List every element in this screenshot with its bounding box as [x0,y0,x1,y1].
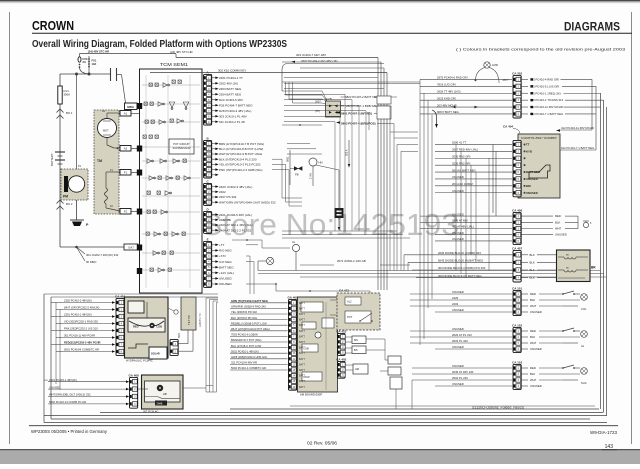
svg-text:UNUSED: UNUSED [219,282,233,286]
svg-text:CA 404: CA 404 [503,125,513,129]
svg-text:Overall Wiring Diagram, Folded: Overall Wiring Diagram, Folded Platform … [32,39,287,50]
svg-text:UNUSED: UNUSED [452,327,464,331]
svg-text:WP2300S 05/2005 • Printed in G: WP2300S 05/2005 • Printed in Germany [31,429,108,434]
svg-text:2426: 2426 [452,296,459,300]
svg-text:BATTERY: BATTERY [50,153,54,166]
svg-text:UNUSED: UNUSED [452,189,464,193]
svg-text:UNUSED: UNUSED [526,177,538,181]
svg-text:BLK (INT)PC410-4 PLS 200: BLK (INT)PC410-4 PLS 200 [219,157,257,161]
svg-text:GR/8 (306)PC202-6 HNS GIG: GR/8 (306)PC202-6 HNS GIG [231,355,267,359]
svg-text:BRN: BRN [178,333,181,338]
svg-text:BATT: BATT [299,347,305,350]
svg-text:BLK: BLK [530,298,535,302]
svg-text:UNUSED: UNUSED [526,191,538,195]
svg-text:2404 AT 302-2 2 PL 332: 2404 AT 302-2 2 PL 332 [219,228,251,232]
svg-text:908 P BATT NEG: 908 P BATT NEG [437,110,459,114]
svg-text:309 DIODE BLOCK (C) BATT NEG: 309 DIODE BLOCK (C) BATT NEG [438,274,482,278]
svg-text:TM: TM [97,159,102,163]
svg-text:BATT: BATT [299,330,305,333]
svg-text:BLK: BLK [555,220,560,224]
svg-text:912 PC410-7 1 BATT NEG: 912 PC410-7 1 BATT NEG [561,146,594,150]
svg-text:RED: RED [555,214,561,218]
svg-text:VIO (302)PC202-1 RAD 292: VIO (302)PC202-1 RAD 292 [64,320,98,324]
svg-text:UNUSED: UNUSED [452,175,464,179]
svg-text:A1: A1 [124,112,128,116]
svg-text:LMR: LMR [492,63,498,67]
svg-text:2623 KHD GRI: 2623 KHD GRI [437,96,456,100]
svg-text:2304 BATT NEG: 2304 BATT NEG [219,92,242,96]
svg-text:UNUSED: UNUSED [452,382,464,386]
svg-text:F2: F2 [124,210,128,214]
svg-text:(282) PC407-1 BRB S/G: (282) PC407-1 BRB S/G [345,104,377,108]
svg-text:HB: HB [163,392,167,396]
svg-text:D23 JC404-5 48V: D23 JC404-5 48V [219,98,243,102]
svg-text:2401 JC302-5 48V (JAL): 2401 JC302-5 48V (JAL) [219,213,252,217]
svg-text:5002 PC410-13 COMM PC HR: 5002 PC410-13 COMM PC HR [49,400,86,404]
svg-text:BLK: BLK [530,268,535,272]
svg-text:2302 48V (JK): 2302 48V (JK) [219,81,238,85]
svg-text:RED: RED [133,325,139,329]
svg-text:2301 PC415-1 48V(JK): 2301 PC415-1 48V(JK) [49,378,77,382]
svg-text:MS: MS [354,338,358,342]
svg-text:BATT: BATT [299,307,305,310]
svg-text:BATT: BATT [299,386,305,389]
svg-text:SOL#R: SOL#R [151,352,160,356]
svg-text:2402: 2402 [219,190,226,194]
svg-text:BDI: BDI [526,184,531,188]
svg-text:BLU (27C)8-C POT LOW: BLU (27C)8-C POT LOW [231,344,262,348]
svg-text:AL: AL [292,240,296,244]
svg-text:AMP/PC TC: AMP/PC TC [198,313,202,327]
svg-text:2674 JC802-2 1/26 GB: 2674 JC802-2 1/26 GB [337,259,366,263]
svg-text:CA 407: CA 407 [512,246,522,250]
svg-text:BLK (307)8-6 PD GIG: BLK (307)8-6 PD GIG [231,316,257,320]
svg-text:303 JC404-7 KEY 48V: 303 JC404-7 KEY 48V [296,53,326,57]
svg-text:2696 AT 48V: 2696 AT 48V [452,219,468,223]
svg-text:5601 PC4164I COMB/TC HR: 5601 PC4164I COMB/TC HR [64,348,99,352]
svg-text:RED/BLU (300)8-5 POT LOW: RED/BLU (300)8-5 POT LOW [231,321,267,325]
svg-text:UNUSED: UNUSED [530,384,542,388]
svg-text:GA 408: GA 408 [128,373,139,377]
svg-text:BO 1: BO 1 [66,111,73,115]
svg-text:YEL (300)8 R PD 332: YEL (300)8 R PD 332 [231,310,257,314]
svg-text:2636 AT 48V 240: 2636 AT 48V 240 [452,370,474,374]
svg-text:UNUSED: UNUSED [530,347,542,351]
svg-text:GA7: GA7 [128,246,134,250]
svg-text:2602 PL 240: 2602 PL 240 [452,376,468,380]
svg-text:302 K10 COMM KEY: 302 K10 COMM KEY [218,69,246,73]
svg-text:BATT: BATT [299,375,305,378]
svg-text:2301 PC404-1 TT: 2301 PC404-1 TT [219,76,243,80]
svg-text:912 PC410-7 1 BATT NEG: 912 PC410-7 1 BATT NEG [530,112,563,116]
svg-text:AM BOARD/DISP: AM BOARD/DISP [300,393,322,397]
svg-text:7819 LUG GRI: 7819 LUG GRI [437,83,456,87]
svg-text:BATT: BATT [299,363,305,366]
svg-text:5601: 5601 [287,156,290,162]
svg-text:2302 PC410-2 48V(JK): 2302 PC410-2 48V(JK) [64,299,92,303]
svg-text:DIAGRAMS: DIAGRAMS [564,22,620,34]
svg-text:301 PC416-11 48V PCHR: 301 PC416-11 48V PCHR [64,334,95,338]
svg-text:CA 103: CA 103 [512,360,522,364]
svg-text:457 AT 48V (JAL): 457 AT 48V (JAL) [452,225,474,229]
svg-text:143: 143 [605,444,614,450]
svg-text:W9-DIA-1723: W9-DIA-1723 [590,430,618,435]
svg-text:WHT: WHT [530,378,537,382]
svg-text:E: E [207,237,209,241]
svg-text:BATT: BATT [299,335,305,338]
svg-text:WHT: WHT [555,227,562,231]
svg-text:CA 402: CA 402 [336,357,346,361]
svg-text:AL2: AL2 [347,300,352,304]
svg-text:UNUSED: UNUSED [452,308,464,312]
svg-text:+T/O: +T/O [219,254,226,258]
svg-text:WHT: WHT [530,304,537,308]
svg-text:5002 PC410-1 48V(JK): 5002 PC410-1 48V(JK) [231,349,259,353]
svg-text:2607: 2607 [315,100,321,104]
svg-text:PM: PM [63,195,68,199]
svg-text:AL: AL [581,344,585,348]
svg-text:240X JC302-3 48V (JAL): 240X JC302-3 48V (JAL) [219,185,252,189]
svg-text:(24) 48V STC HR: (24) 48V STC HR [88,49,109,53]
svg-text:303 PC410-1 1REQ (JK): 303 PC410-1 1REQ (JK) [530,91,561,95]
svg-text:UNUSED: UNUSED [49,385,60,389]
svg-text:UNUSED: UNUSED [452,364,464,368]
svg-text:303 PC410-4 RAD GRI: 303 PC410-4 RAD GRI [530,77,559,81]
svg-text:BRN/GRN 8-7 POT (SIG): BRN/GRN 8-7 POT (SIG) [231,338,262,342]
svg-text:505 AG BATT NEG: 505 AG BATT NEG [452,168,476,172]
svg-text:2607 PC404-2 (82) 48V (JK): 2607 PC404-2 (82) 48V (JK) [301,59,338,63]
svg-text:WHT: WHT [530,341,537,345]
svg-text:BLK: BLK [530,372,535,376]
svg-text:2303 BATT NEG: 2303 BATT NEG [219,87,242,91]
svg-text:COL: COL [581,307,587,311]
svg-text:LGB: LGB [157,325,163,329]
svg-text:BLK: BLK [530,253,535,257]
svg-text:UNUSED: UNUSED [555,233,567,237]
svg-text:BR: BR [591,266,596,270]
svg-text:WHT(GY)PC410-9 B POT HIGH: WHT(GY)PC410-9 B POT HIGH [219,152,262,156]
svg-text:WHT (GRY)PC202-2 48V(JK): WHT (GRY)PC202-2 48V(JK) [64,306,100,310]
svg-text:WHT (HYD)PC410-9 POT HIGH: WHT (HYD)PC410-9 POT HIGH [231,327,270,331]
svg-text:UNUSED: UNUSED [452,237,464,241]
svg-text:5002 PC410-4 COMB/TC HR: 5002 PC410-4 COMB/TC HR [231,366,266,370]
svg-text:2677: 2677 [503,78,509,82]
svg-text:BRN (HYD)PC410-7 B POT (SIG): BRN (HYD)PC410-7 B POT (SIG) [219,142,264,146]
svg-text:YEL (INT)PC410-3 PLS PC202: YEL (INT)PC410-3 PLS PC202 [219,163,261,167]
svg-text:MRA: MRA [127,105,135,109]
svg-text:911 JC410-2 PL 48: 911 JC410-2 PL 48 [219,120,245,124]
svg-text:TILT PC: TILT PC [187,315,191,325]
svg-text:RED: RED [530,292,536,296]
svg-text:BATT: BATT [299,352,305,355]
svg-text:BLK: BLK [530,335,535,339]
svg-text:BATT: BATT [299,324,305,327]
svg-text:CA 406: CA 406 [512,208,522,212]
svg-text:INT PCB #G: INT PCB #G [143,410,159,414]
svg-text:RED: RED [530,366,536,370]
svg-text:WHT/GRN (INT)PC404A-2A/IT (MSD: WHT/GRN (INT)PC404A-2A/IT (MSD) 332 [219,200,276,204]
svg-text:BATT: BATT [299,341,305,344]
svg-text:BLK: BLK [530,260,535,264]
svg-text:+TT: +TT [219,243,225,247]
svg-text:2626 DIODE BLOCK (COMR) 323: 2626 DIODE BLOCK (COMR) 323 [438,251,481,255]
svg-text:303 JC410-1 PL 48V: 303 JC410-1 PL 48V [219,114,247,118]
svg-text:BLK: BLK [530,276,535,280]
svg-text:CA 412: CA 412 [339,289,349,293]
svg-text:CA 302: CA 302 [512,71,522,75]
svg-text:UNUSED: UNUSED [452,231,464,235]
svg-text:+12V (JAL): +12V (JAL) [219,271,234,275]
svg-text:BATT: BATT [299,319,305,322]
svg-text:10A: 10A [92,62,97,66]
svg-text:GRN/PNK (305)8-9 RAD 240: GRN/PNK (305)8-9 RAD 240 [231,305,266,309]
svg-text:02 Rev. 05/06: 02 Rev. 05/06 [307,441,337,446]
svg-text:BATT: BATT [299,313,305,316]
svg-text:BATT: BATT [299,302,305,305]
svg-text:5803 PC407-4 (BRB/POS): 5803 PC407-4 (BRB/POS) [341,121,376,125]
svg-text:BS: BS [354,348,358,352]
svg-text:A2: A2 [124,147,128,151]
svg-text:303 A: 303 A [346,149,349,156]
svg-text:CA 101: CA 101 [512,286,522,290]
svg-text:2407 PS 332: 2407 PS 332 [219,195,237,199]
svg-text:BATT: BATT [299,369,305,372]
svg-text:2403 AT 302-1 48V (JAL): 2403 AT 302-1 48V (JAL) [219,223,253,227]
svg-text:2301 PC416-1 48V(JK): 2301 PC416-1 48V(JK) [64,313,92,317]
svg-text:TT: TT [526,142,530,146]
svg-text:321 PC410-8 48V HR: 321 PC410-8 48V HR [231,361,257,365]
svg-text:PB: PB [295,173,299,177]
svg-text:BATT: BATT [299,358,305,361]
svg-text:2603 PL 320: 2603 PL 320 [452,339,468,343]
svg-text:UNUSED: UNUSED [530,310,542,314]
svg-text:3230 RN2 GRI: 3230 RN2 GRI [452,161,471,165]
svg-text:300A: 300A [64,93,71,97]
svg-text:2A#B: 2A#B [157,403,163,406]
svg-text:BLU (GY)PC410-8 B POT (LOW): BLU (GY)PC410-8 B POT (LOW) [219,147,263,151]
svg-text:POT: POT [347,315,353,319]
svg-text:POT CIRCUIT: POT CIRCUIT [173,142,190,146]
svg-text:203 48V MCHR: 203 48V MCHR [437,103,457,107]
svg-text:UNUSED: UNUSED [452,212,464,216]
svg-text:GRN (TC)PC202-9 BATT NEG: GRN (TC)PC202-9 BATT NEG [231,299,268,303]
svg-text:5801 PC407-3 (WT/RD): 5801 PC407-3 (WT/RD) [341,111,372,115]
svg-text:UNUSED: UNUSED [452,345,464,349]
svg-text:303 DIODE BLOCK (COMR) FFS 330: 303 DIODE BLOCK (COMR) FFS 330 [438,266,486,270]
svg-text:306 PC410-1 TO/HNS 313: 306 PC410-1 TO/HNS 313 [530,98,564,102]
svg-text:CA 410: CA 410 [336,329,346,333]
svg-text:R/O NEG: R/O NEG [219,249,232,253]
svg-text:UNUSED: UNUSED [452,290,464,294]
svg-text:5280 41 TT: 5280 41 TT [452,141,467,145]
svg-text:SUPPRESSOR: SUPPRESSOR [172,146,190,150]
svg-text:HM: HM [355,367,359,371]
svg-text:D28 PC404-3 48V (JAL): D28 PC404-3 48V (JAL) [219,109,251,113]
svg-text:7003 PC410-6 LGB/W: 7003 PC410-6 LGB/W [231,333,258,337]
svg-text:2626 TT 48V (JA3): 2626 TT 48V (JA3) [437,89,461,93]
svg-text:BO 2: BO 2 [66,202,73,206]
svg-text:(24) 48V STC HR: (24) 48V STC HR [170,50,193,54]
svg-text:WHT/GRN (DBL GILT 240/LS) 332: WHT/GRN (DBL GILT 240/LS) 332 [49,393,91,397]
svg-text:CROWN: CROWN [32,18,74,33]
svg-text:F1: F1 [124,171,128,175]
svg-text:P26 PC404-7 BATT NEG: P26 PC404-7 BATT NEG [219,103,253,107]
svg-text:CURTIS 833 "COMBI": CURTIS 833 "COMBI" [521,136,557,140]
svg-text:BATT: BATT [299,380,305,383]
svg-text:HN: HN [319,161,323,165]
svg-text:2A: 2A [83,60,86,64]
svg-text:PNK (292)PC202-2 U/S 310: PNK (292)PC202-2 U/S 310 [64,327,98,331]
svg-text:TCM SEM1: TCM SEM1 [160,62,189,67]
svg-text:2 HN: 2 HN [310,173,313,179]
svg-text:KYB: KYB [526,149,532,153]
svg-text:2626 AT PL 313: 2626 AT PL 313 [452,333,472,337]
svg-text:CA 102: CA 102 [512,323,522,327]
svg-text:303 PC410-5 LU/S GRI: 303 PC410-5 LU/S GRI [530,84,559,88]
svg-text:C/O NEG: C/O NEG [219,260,232,264]
svg-text:2030 RN2 GRI: 2030 RN2 GRI [452,154,471,158]
svg-text:RED(312)PC202-5 48V PCHR: RED(312)PC202-5 48V PCHR [64,341,101,345]
svg-text:KYB: KYB [326,97,332,101]
svg-text:203 A/10 COMM: 203 A/10 COMM [452,182,473,186]
svg-text:412 PC410-11 48V MCHR: 412 PC410-11 48V MCHR [561,126,594,130]
svg-text:2402: 2402 [452,302,459,306]
svg-text:912 PC410-11 48V MCHR: 912 PC410-11 48V MCHR [530,105,563,109]
svg-text:304 JC202-7 48V(JK) 332: 304 JC202-7 48V(JK) 332 [86,253,119,257]
svg-text:GA 400: GA 400 [287,295,298,299]
svg-text:( ) Colours in brackets corres: ( ) Colours in brackets correspond to th… [456,47,626,52]
svg-text:2402 PS: 2402 PS [219,218,231,222]
svg-text:BATT NEG: BATT NEG [219,265,234,269]
svg-text:PNK (INT)PC410-2 2 GRB (SIG): PNK (INT)PC410-2 2 GRB (SIG) [219,168,263,172]
svg-text:2976 PC404-6 RAD GRI: 2976 PC404-6 RAD GRI [437,76,468,80]
svg-text:RED: RED [530,329,536,333]
svg-text:90 DB/C: 90 DB/C [86,260,97,264]
svg-text:SUA: SUA [581,381,587,385]
svg-text:5643 DIODE BLOCK (A) BATT NEG: 5643 DIODE BLOCK (A) BATT NEG [438,259,483,263]
svg-text:UNUSED: UNUSED [219,277,233,281]
svg-text:MOT: MOT [103,129,109,133]
